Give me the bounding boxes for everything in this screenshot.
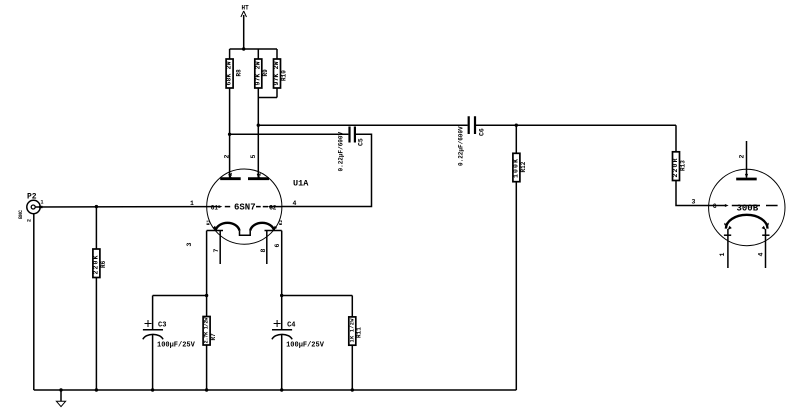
svg-text:2: 2 (739, 155, 746, 159)
svg-text:R13: R13 (680, 160, 687, 171)
svg-text:0.22µF/600V: 0.22µF/600V (458, 126, 465, 166)
svg-text:1: 1 (190, 200, 194, 207)
svg-text:K1: K1 (205, 219, 211, 225)
svg-text:R9: R9 (262, 69, 269, 77)
svg-text:1: 1 (41, 200, 44, 206)
svg-text:C6: C6 (479, 128, 486, 136)
svg-text:K2: K2 (278, 219, 284, 225)
svg-text:R11: R11 (356, 327, 363, 338)
svg-text:G1: G1 (211, 204, 219, 211)
svg-text:A2: A2 (256, 172, 262, 178)
svg-text:R8: R8 (235, 69, 242, 77)
svg-text:R6: R6 (100, 260, 107, 268)
svg-text:4: 4 (757, 253, 764, 257)
svg-text:2: 2 (223, 155, 230, 159)
svg-text:97K 2W: 97K 2W (273, 61, 280, 85)
svg-text:0.22µF/600V: 0.22µF/600V (338, 131, 345, 171)
svg-text:K: K (765, 222, 771, 225)
svg-text:7: 7 (213, 249, 220, 253)
svg-text:C4: C4 (287, 321, 295, 329)
svg-text:6: 6 (274, 244, 281, 248)
svg-text:300B: 300B (737, 203, 759, 213)
svg-text:3: 3 (186, 243, 193, 247)
svg-text:R7: R7 (210, 333, 217, 341)
svg-text:G2: G2 (269, 204, 277, 211)
svg-text:8: 8 (260, 249, 267, 253)
svg-text:G: G (713, 203, 717, 210)
svg-text:R12: R12 (520, 161, 527, 172)
svg-text:HT: HT (242, 5, 250, 12)
svg-text:220K: 220K (93, 255, 100, 274)
svg-text:220R: 220R (672, 158, 679, 177)
svg-text:3: 3 (692, 198, 696, 205)
svg-text:2: 2 (27, 219, 33, 222)
svg-text:68K 2W: 68K 2W (226, 61, 233, 85)
svg-text:100µF/25V: 100µF/25V (286, 341, 325, 349)
svg-text:5: 5 (250, 155, 257, 159)
svg-text:97K 2W: 97K 2W (254, 61, 261, 85)
svg-text:K: K (723, 222, 729, 225)
svg-text:6SN7: 6SN7 (234, 203, 256, 213)
svg-text:1: 1 (719, 253, 726, 257)
svg-text:4: 4 (293, 200, 297, 207)
svg-text:A1: A1 (228, 172, 234, 178)
svg-text:R10: R10 (281, 70, 288, 81)
svg-text:BNC: BNC (18, 210, 24, 219)
svg-text:2.7K 1/2W: 2.7K 1/2W (204, 317, 210, 344)
svg-text:100K: 100K (512, 159, 519, 178)
svg-text:C3: C3 (158, 321, 166, 329)
svg-text:U1A: U1A (293, 179, 309, 189)
svg-text:C5: C5 (358, 138, 365, 146)
svg-text:100µF/25V: 100µF/25V (157, 341, 196, 349)
svg-text:1K 1/2W: 1K 1/2W (349, 318, 355, 343)
